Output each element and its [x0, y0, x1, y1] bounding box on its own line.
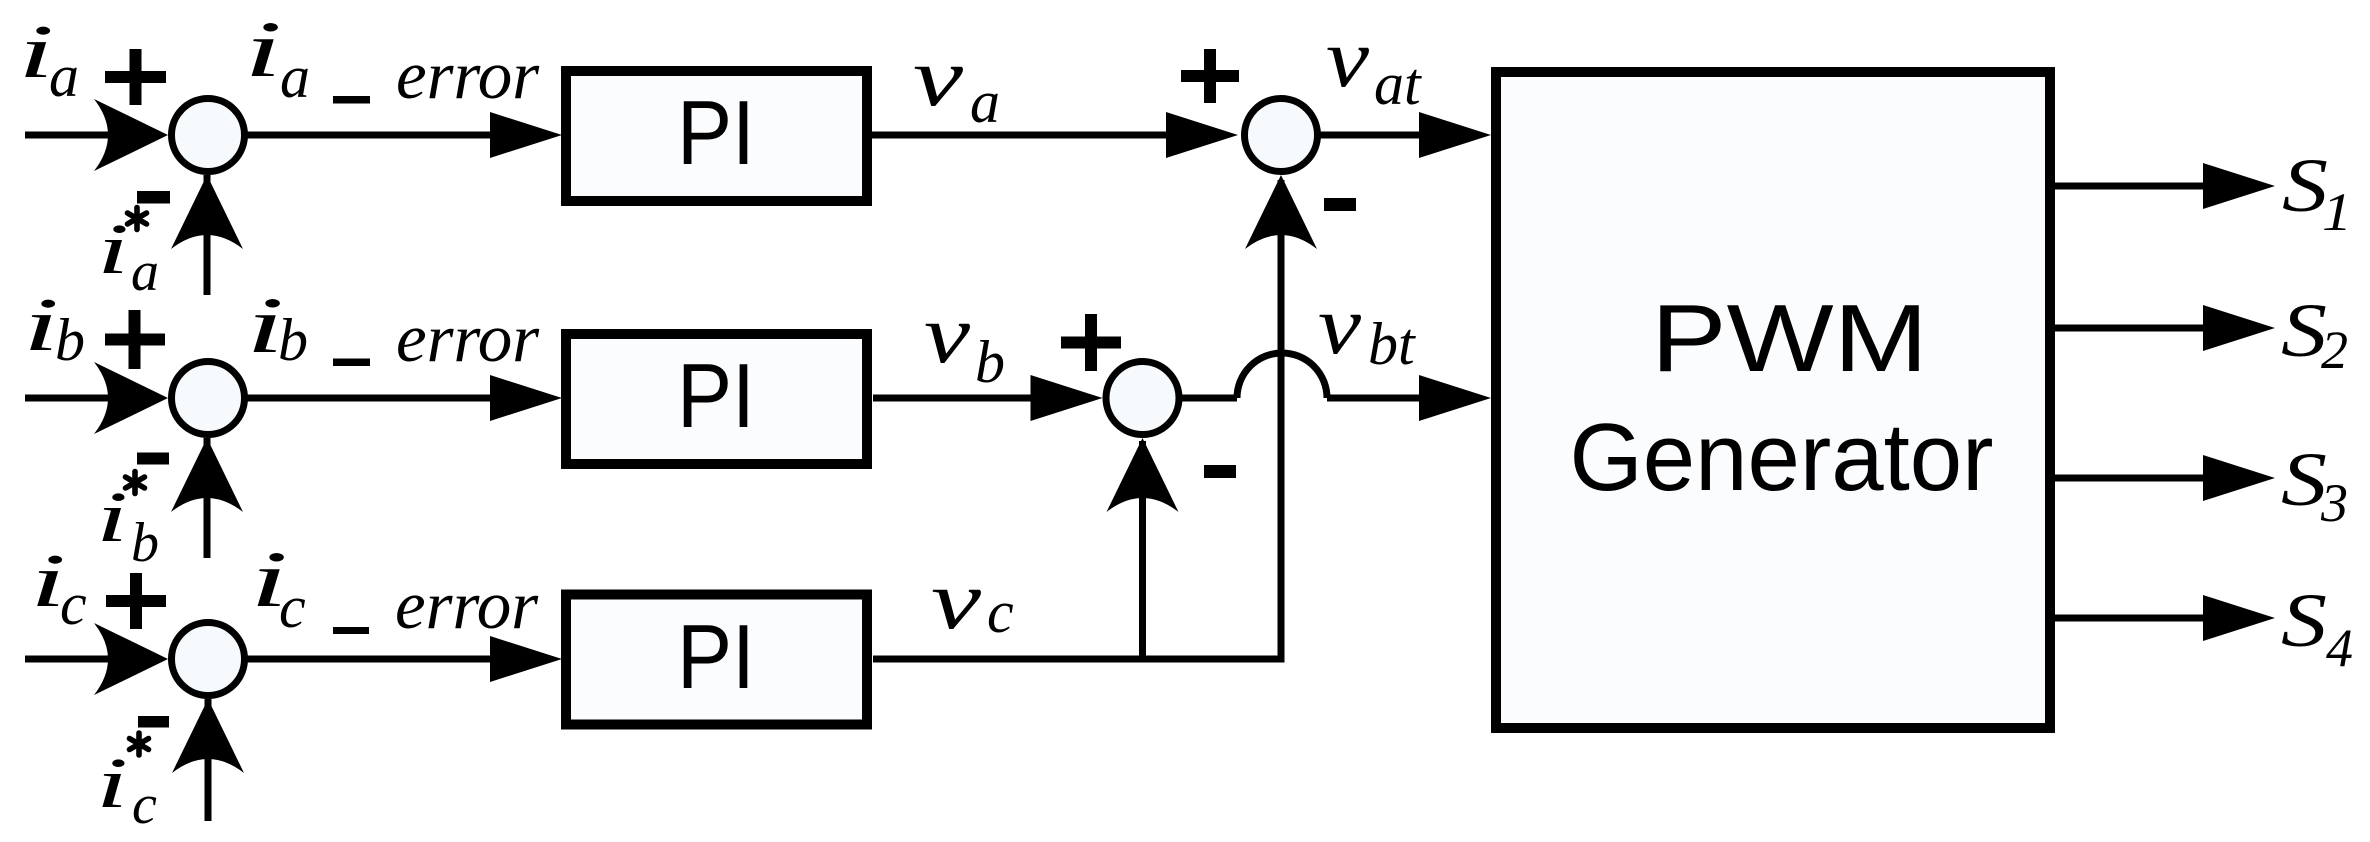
- svg-text:error: error: [395, 567, 539, 643]
- label ib* reference: [96, 472, 159, 575]
- wire S3 output: [2055, 475, 2210, 482]
- svg-text:at: at: [1374, 51, 1422, 117]
- wire vc feedback from PI3 up to sum4: [873, 180, 1281, 659]
- arrowhead into sum3: [94, 623, 168, 695]
- arrowhead into PI3: [490, 636, 562, 682]
- wire row2 sum5 to bridge: [1178, 395, 1237, 402]
- svg-text:c: c: [279, 574, 306, 640]
- wire row2 input: [25, 395, 112, 402]
- wire row1 minus tail under sum1: [204, 175, 211, 295]
- svg-text:error: error: [396, 37, 540, 113]
- svg-text:v: v: [1326, 12, 1370, 105]
- label ia: [18, 10, 79, 109]
- label va: [913, 31, 1000, 135]
- label vat: [1326, 12, 1422, 117]
- minus sign at sum3: [138, 716, 169, 728]
- svg-text:bt: bt: [1368, 311, 1416, 377]
- label vb: [924, 288, 1005, 395]
- svg-text:v: v: [1318, 279, 1362, 372]
- svg-text:a: a: [280, 44, 310, 110]
- plus sign at sum2: [105, 310, 165, 369]
- svg-text:b: b: [278, 307, 308, 373]
- arrowhead into PI2: [490, 375, 562, 421]
- svg-text:v: v: [913, 31, 964, 124]
- wire row1 sum1 to PI1: [246, 132, 500, 139]
- arrowhead S4: [2203, 595, 2275, 641]
- block PI3: [566, 595, 867, 725]
- wire row2 PI2 to sum5: [873, 395, 1040, 402]
- block PWM Generator: [1496, 72, 2050, 728]
- arrowhead vat into PWM: [1419, 112, 1491, 158]
- arrowhead S3: [2203, 455, 2275, 501]
- arrowhead minus into sum3 from below: [172, 699, 244, 773]
- summing junction sum5: [1106, 362, 1179, 435]
- arrowhead into sum4 horizontal: [1166, 112, 1238, 158]
- plus sign at sum5: [1061, 314, 1121, 371]
- svg-text:c: c: [60, 571, 87, 637]
- svg-text:Generator: Generator: [1570, 404, 1994, 511]
- arrowhead into sum4 from below: [1245, 175, 1317, 249]
- wire row2 bridge to PWM: [1327, 395, 1430, 402]
- summing junction sum3: [172, 623, 245, 696]
- wire S1 output: [2055, 183, 2210, 190]
- label ic* reference: [96, 733, 157, 836]
- svg-text:3: 3: [2320, 473, 2348, 533]
- label ib: [23, 283, 85, 373]
- arrowhead into sum5 horizontal: [1031, 375, 1103, 421]
- svg-text:b: b: [55, 307, 85, 373]
- wire bridge hop over vertical: [1237, 353, 1327, 398]
- wire row1 sum4 to PWM: [1319, 132, 1430, 139]
- svg-text:i: i: [244, 6, 282, 94]
- arrowhead into sum5 from below: [1107, 438, 1179, 512]
- svg-text:b: b: [131, 512, 159, 574]
- label ic_error: [250, 536, 539, 643]
- svg-text:2: 2: [2321, 320, 2348, 380]
- block PI1: [566, 71, 867, 201]
- svg-text:PI: PI: [677, 346, 755, 447]
- label ic: [30, 539, 87, 637]
- arrowhead into PI1: [490, 112, 562, 158]
- svg-text:4: 4: [2326, 618, 2353, 678]
- svg-text:c: c: [987, 579, 1014, 645]
- wire row3 input: [25, 656, 112, 663]
- wire row2 sum2 to PI2: [246, 395, 500, 402]
- arrowhead into sum2: [94, 362, 168, 434]
- plus sign at sum4: [1181, 49, 1239, 103]
- summing junction sum2: [172, 362, 245, 435]
- minus sign at sum2: [137, 453, 169, 465]
- label S2: [2281, 289, 2348, 380]
- wire row3 sum3 to PI3: [246, 656, 500, 663]
- minus sign at sum1: [137, 191, 170, 204]
- wire S4 output: [2055, 615, 2210, 622]
- arrowhead S2: [2203, 305, 2275, 351]
- summing junction sum1: [172, 99, 245, 172]
- svg-text:i: i: [97, 209, 129, 289]
- svg-text:a: a: [970, 69, 1000, 135]
- svg-text:1: 1: [2322, 182, 2352, 242]
- wire row1 PI1 to sum4: [872, 132, 1175, 139]
- arrowhead minus into sum1 from below: [171, 175, 243, 249]
- wire row2 minus tail under sum2: [204, 438, 211, 558]
- wire row3 minus tail under sum3: [205, 699, 212, 821]
- label S4: [2281, 579, 2353, 678]
- wire vc branch up to sum5: [1139, 441, 1146, 659]
- wire row1 input: [25, 132, 112, 139]
- plus sign at sum1: [105, 49, 166, 105]
- arrowhead vbt into PWM: [1419, 375, 1491, 421]
- svg-text:PI: PI: [677, 607, 755, 708]
- label vbt: [1318, 279, 1416, 377]
- svg-text:b: b: [975, 329, 1005, 395]
- svg-text:i: i: [23, 283, 59, 367]
- label ia* reference: [97, 208, 159, 304]
- plus sign at sum3: [106, 573, 166, 629]
- minus sign at sum4: [1324, 198, 1356, 211]
- label ib_error: [246, 282, 540, 376]
- arrowhead minus into sum2 from below: [171, 438, 243, 512]
- label vc: [931, 554, 1014, 647]
- arrowhead S1: [2203, 163, 2275, 209]
- svg-text:a: a: [131, 241, 159, 303]
- svg-text:PI: PI: [677, 83, 755, 184]
- wire S2 output: [2055, 325, 2210, 332]
- label S1: [2282, 144, 2352, 242]
- svg-text:c: c: [132, 774, 157, 836]
- svg-text:v: v: [931, 554, 982, 647]
- arrowhead into sum1: [94, 99, 168, 171]
- svg-text:a: a: [49, 43, 79, 109]
- svg-text:error: error: [396, 300, 540, 376]
- summing junction sum4: [1245, 99, 1318, 172]
- block PI2: [566, 334, 867, 464]
- svg-text:S: S: [2281, 579, 2327, 663]
- svg-text:v: v: [924, 288, 971, 381]
- label S3: [2281, 438, 2348, 533]
- minus sign at sum5: [1204, 465, 1236, 478]
- svg-text:i: i: [96, 743, 128, 823]
- svg-text:PWM: PWM: [1651, 285, 1928, 392]
- label ia_error: [244, 6, 540, 113]
